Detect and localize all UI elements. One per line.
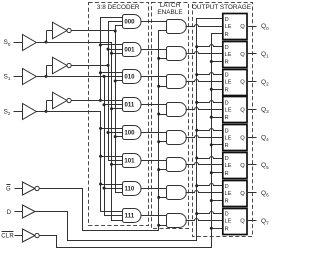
svg-text:D: D bbox=[225, 101, 229, 107]
svg-text:G: G bbox=[6, 187, 11, 193]
svg-text:110: 110 bbox=[124, 186, 134, 193]
svg-text:000: 000 bbox=[124, 19, 135, 26]
svg-text:D: D bbox=[225, 212, 229, 218]
svg-text:D: D bbox=[225, 45, 229, 51]
svg-text:R: R bbox=[225, 115, 229, 121]
svg-text:D: D bbox=[225, 184, 229, 190]
svg-text:LE: LE bbox=[225, 191, 232, 197]
svg-text:Q: Q bbox=[240, 163, 245, 169]
svg-text:011: 011 bbox=[124, 102, 134, 109]
svg-text:R: R bbox=[225, 87, 229, 93]
svg-text:Q: Q bbox=[240, 80, 245, 86]
svg-text:Q: Q bbox=[240, 52, 245, 58]
svg-text:R: R bbox=[225, 60, 229, 66]
svg-text:OUTPUT STORAGE: OUTPUT STORAGE bbox=[192, 4, 251, 11]
svg-text:R: R bbox=[225, 226, 229, 232]
svg-text:D: D bbox=[225, 128, 229, 134]
svg-text:001: 001 bbox=[124, 47, 135, 54]
svg-text:LE: LE bbox=[225, 52, 232, 58]
svg-text:D: D bbox=[225, 156, 229, 162]
svg-text:D: D bbox=[225, 73, 229, 79]
svg-text:Q: Q bbox=[240, 24, 245, 30]
svg-text:LE: LE bbox=[225, 80, 232, 86]
svg-text:3:8 DECODER: 3:8 DECODER bbox=[97, 4, 140, 11]
svg-text:D: D bbox=[225, 17, 229, 23]
svg-text:Q: Q bbox=[240, 108, 245, 114]
svg-text:100: 100 bbox=[124, 130, 135, 137]
svg-text:LE: LE bbox=[225, 24, 232, 30]
svg-text:LE: LE bbox=[225, 163, 232, 169]
svg-text:LE: LE bbox=[225, 135, 232, 141]
svg-text:D: D bbox=[7, 210, 12, 216]
svg-text:Q: Q bbox=[240, 219, 245, 225]
svg-text:111: 111 bbox=[125, 213, 135, 220]
svg-text:Q: Q bbox=[240, 191, 245, 197]
svg-text:R: R bbox=[225, 171, 229, 177]
svg-text:ENABLE: ENABLE bbox=[157, 9, 182, 16]
svg-text:R: R bbox=[225, 32, 229, 38]
svg-text:R: R bbox=[225, 199, 229, 205]
svg-text:010: 010 bbox=[124, 74, 135, 81]
svg-text:LE: LE bbox=[225, 108, 232, 114]
svg-text:101: 101 bbox=[124, 158, 135, 165]
svg-text:LE: LE bbox=[225, 219, 232, 225]
svg-text:R: R bbox=[225, 143, 229, 149]
svg-text:Q: Q bbox=[240, 135, 245, 141]
svg-text:CLR: CLR bbox=[1, 233, 14, 239]
